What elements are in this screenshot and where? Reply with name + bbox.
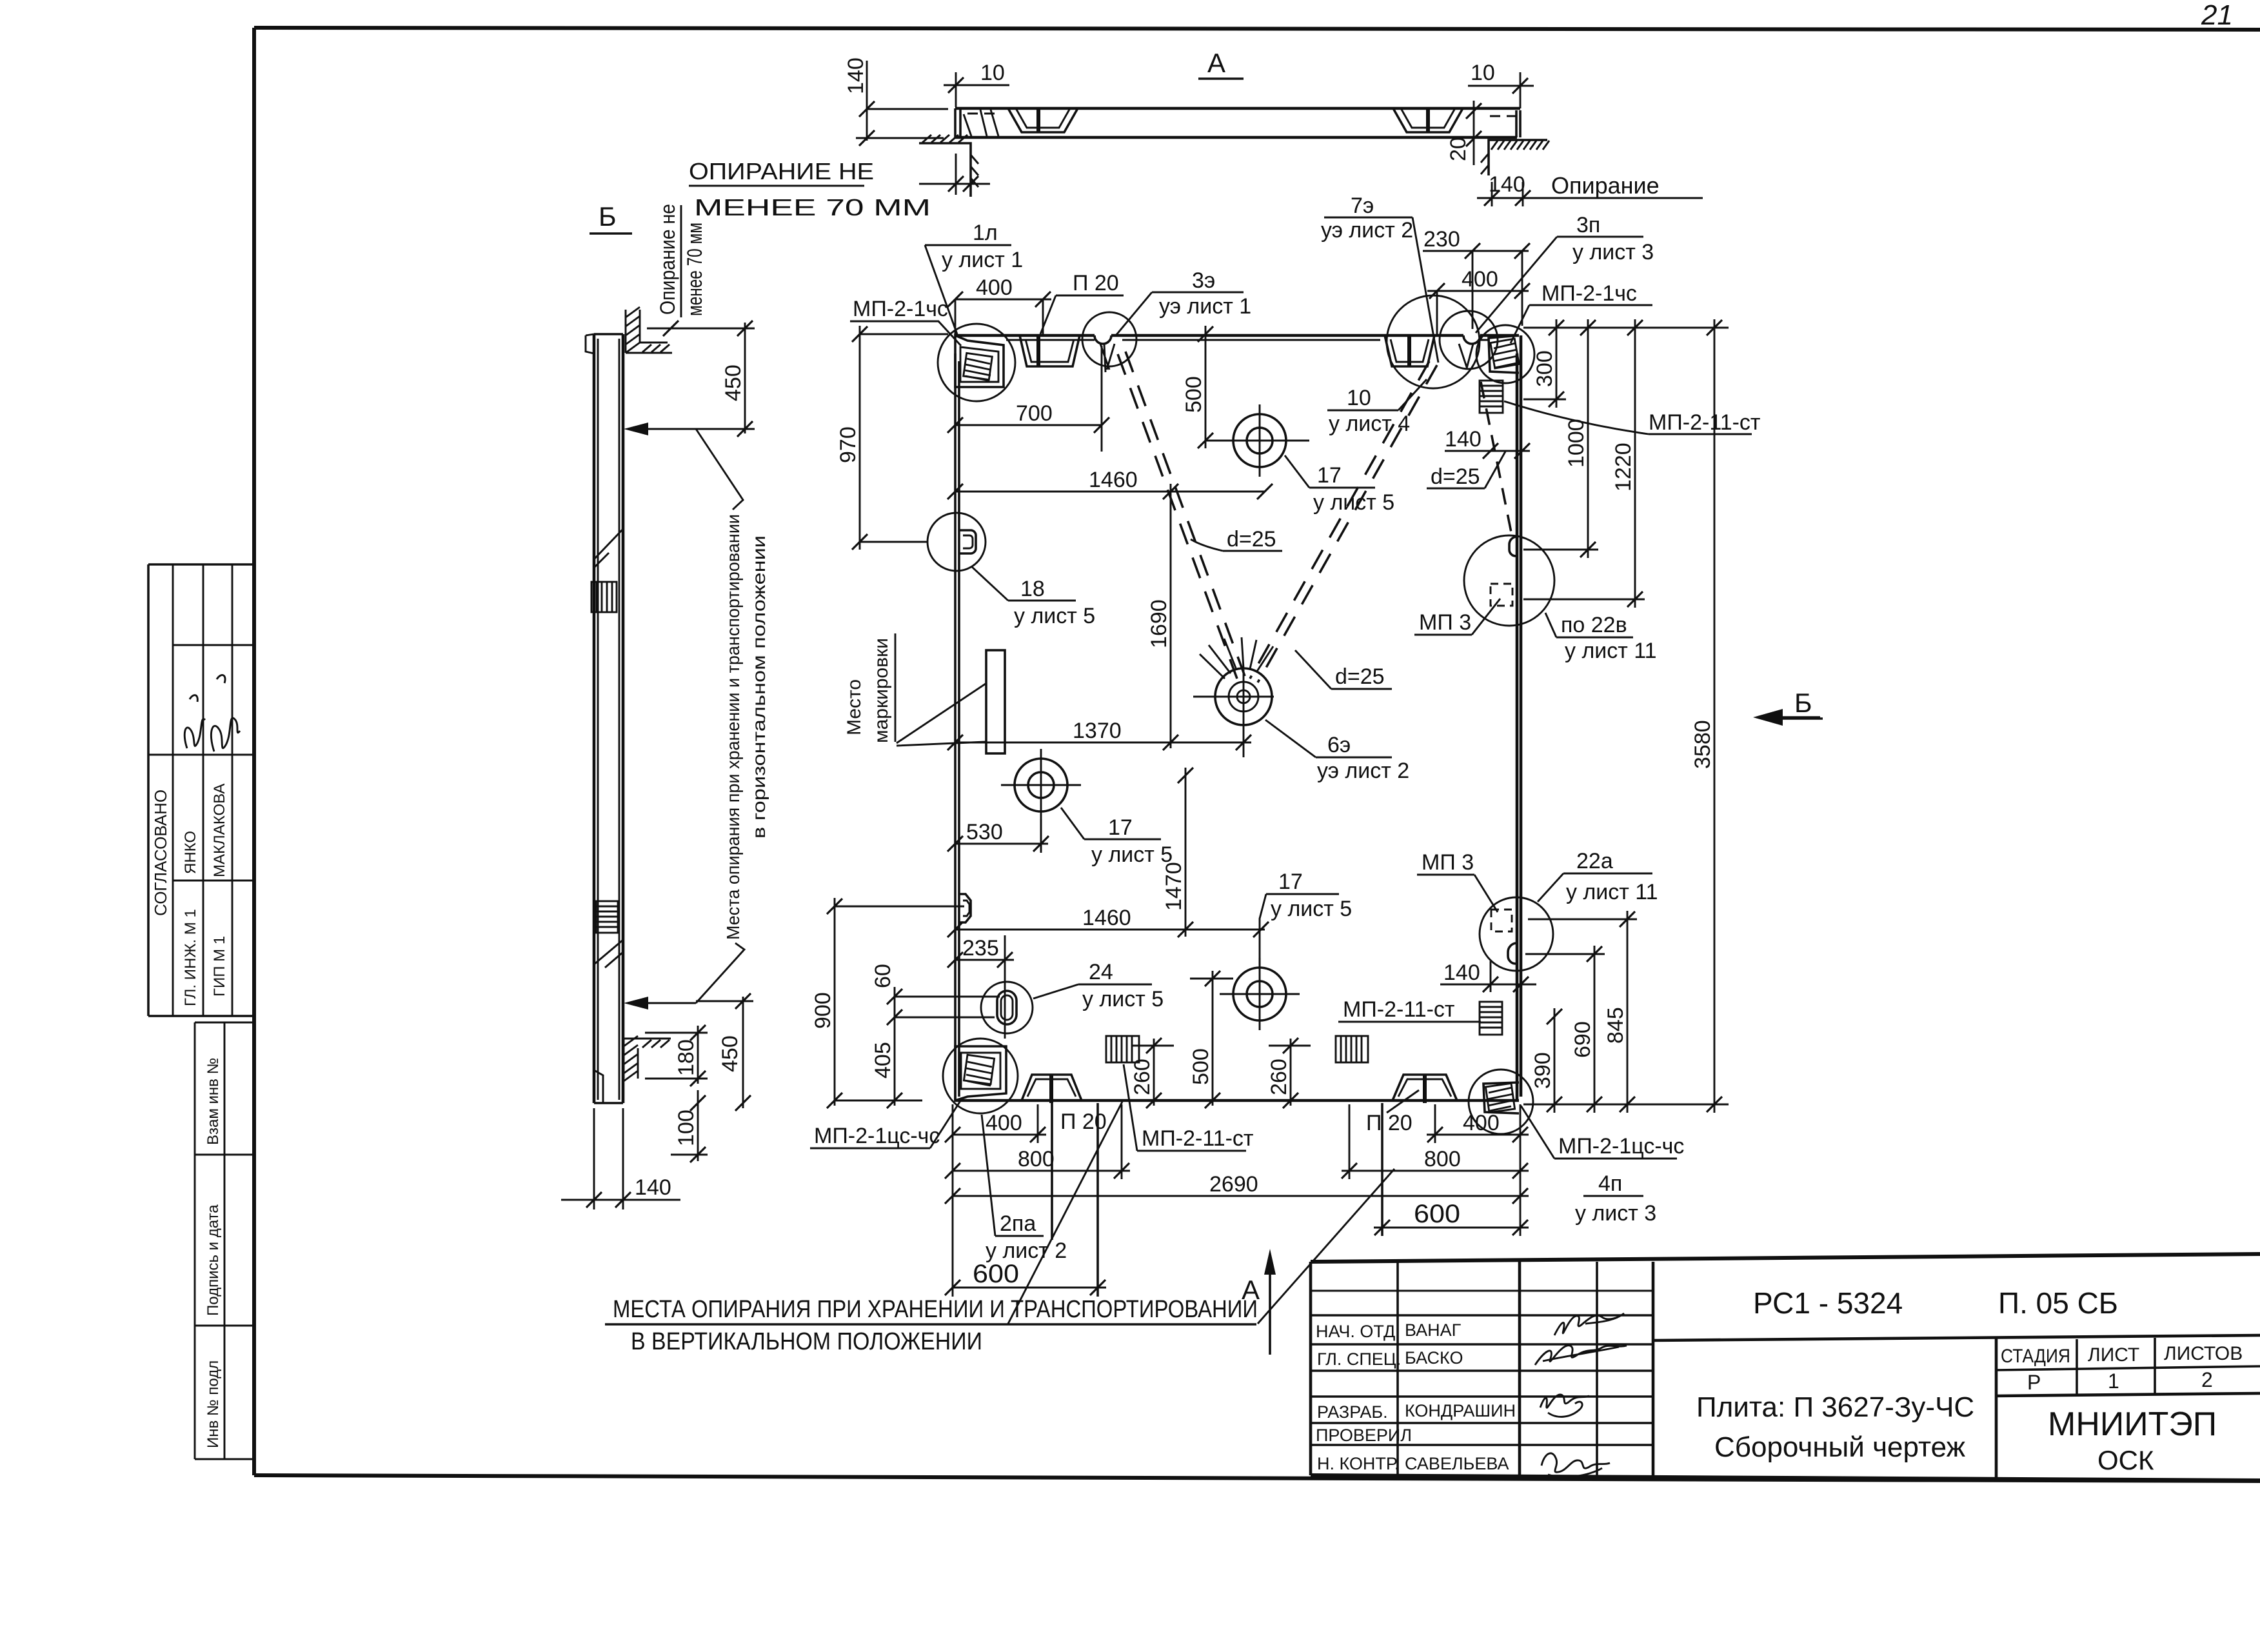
dim 300 right <box>1523 319 1566 408</box>
svg-text:530: 530 <box>966 820 1003 844</box>
dim 900 <box>811 898 964 1108</box>
svg-text:800: 800 <box>1018 1147 1055 1171</box>
dim 690 right <box>1525 946 1605 1113</box>
label 17 upper / у лист 5 <box>1285 455 1394 515</box>
plan left edge (double) <box>955 353 959 1100</box>
marking rectangle Место маркировки <box>986 650 1005 753</box>
comb МП-2-11-ст bottom-second <box>1336 1036 1368 1062</box>
dim 2690 bottom <box>945 1172 1529 1204</box>
dim 180 <box>645 1025 708 1086</box>
svg-text:140: 140 <box>635 1175 671 1200</box>
label 17 mid-left / у лист 5 <box>1061 808 1173 867</box>
leaders from Место маркировки to rect <box>897 684 986 746</box>
3п notch + detail circle <box>1440 311 1498 369</box>
stadия header bottom line <box>1996 1366 2260 1370</box>
svg-text:1л: 1л <box>973 221 998 245</box>
slab break marks upper <box>594 529 623 568</box>
svg-text:у лист 5: у лист 5 <box>1082 987 1164 1011</box>
label МП-2-11-ст mid-right <box>1338 997 1481 1022</box>
label 7э / уэ лист 2 <box>1321 194 1438 363</box>
svg-text:140: 140 <box>1489 172 1525 197</box>
svg-text:у лист 5: у лист 5 <box>1014 604 1095 628</box>
svg-text:САВЕЛЬЕВА: САВЕЛЬЕВА <box>1405 1454 1509 1473</box>
label МП-2-1цс-чс bottom-left <box>810 1098 962 1148</box>
svg-text:менее 70 мм: менее 70 мм <box>683 223 706 316</box>
dim 500 lower <box>1189 971 1233 1108</box>
plan top edge inner thin line <box>1006 339 1489 341</box>
svg-text:1220: 1220 <box>1611 443 1636 492</box>
svg-text:МП-2-11-ст: МП-2-11-ст <box>1343 997 1455 1022</box>
svg-text:140: 140 <box>844 57 868 94</box>
title block column lines (left part) <box>1398 1262 1653 1475</box>
svg-text:КОНДРАШИН: КОНДРАШИН <box>1405 1401 1516 1420</box>
bottom extension lines <box>953 1103 1520 1297</box>
dim 405 <box>871 1027 902 1108</box>
svg-text:7э: 7э <box>1351 194 1374 218</box>
dim 400 top-right <box>1427 267 1530 335</box>
title block row lines (left part) <box>1311 1291 1653 1445</box>
dim 1370 <box>947 719 1251 750</box>
Б section arrow right <box>1753 688 1823 726</box>
dim 450 bottom <box>696 993 753 1111</box>
svg-text:А: А <box>1207 48 1225 78</box>
svg-text:21: 21 <box>2201 0 2233 31</box>
dim 260 right <box>1267 1038 1311 1108</box>
svg-text:d=25: d=25 <box>1335 664 1385 689</box>
dim 230 top-right <box>1423 227 1530 329</box>
24 detail: oval hole <box>981 982 1033 1033</box>
svg-text:Опирание: Опирание <box>1551 172 1660 199</box>
signature ВАНАГ <box>1554 1313 1624 1335</box>
svg-text:400: 400 <box>1462 267 1498 292</box>
caption leader to П20 right <box>1258 1169 1394 1324</box>
3э notch + detail circle <box>1082 312 1136 372</box>
plan top edge <box>955 334 1519 337</box>
dim 20 right <box>1446 101 1482 165</box>
svg-text:Б: Б <box>1794 688 1812 718</box>
comb МП-2-11-ст top-right <box>1480 381 1503 413</box>
МП3 detail upper: circle + dashed square <box>1464 535 1554 626</box>
dim 1220 right <box>1523 319 1645 608</box>
dim 600 bottom-right (handwritten) <box>1374 1200 1529 1235</box>
П20 support top-right <box>1385 295 1480 388</box>
svg-text:ПРОВЕРИЛ: ПРОВЕРИЛ <box>1316 1426 1412 1445</box>
svg-text:РС1 - 5324: РС1 - 5324 <box>1753 1286 1903 1320</box>
title block text: names <box>1405 1320 1516 1473</box>
svg-text:690: 690 <box>1571 1021 1595 1058</box>
slab profile section A <box>955 108 1520 137</box>
svg-text:140: 140 <box>1443 960 1480 985</box>
caption МЕСТА ОПИРАНИЯ (handwritten) <box>605 1296 1258 1355</box>
dim 1690 <box>1147 484 1178 750</box>
П20 support bottom-right <box>1393 1075 1457 1103</box>
svg-text:230: 230 <box>1423 227 1460 252</box>
label П 20 top-left <box>1040 271 1124 334</box>
svg-text:ОСК: ОСК <box>2097 1445 2154 1475</box>
section label Б <box>590 201 632 234</box>
svg-text:у лист 11: у лист 11 <box>1565 639 1657 663</box>
caption leader top <box>696 429 743 510</box>
svg-text:390: 390 <box>1531 1052 1555 1089</box>
svg-text:П 20: П 20 <box>1073 271 1119 295</box>
dashed tie 7э to 6э <box>1250 361 1437 682</box>
22а detail: circle + dashed square + hook <box>1480 897 1553 971</box>
svg-text:в горизонтальном положении: в горизонтальном положении <box>749 535 769 839</box>
svg-text:ГЛ. СПЕЦ.: ГЛ. СПЕЦ. <box>1317 1349 1401 1369</box>
svg-text:МНИИТЭП: МНИИТЭП <box>2048 1406 2217 1443</box>
stadия column dividers <box>2077 1338 2155 1396</box>
label 2па / у лист 2 <box>982 1115 1067 1263</box>
stadия section left edge <box>1995 1338 1998 1477</box>
svg-text:450: 450 <box>718 1035 742 1072</box>
svg-text:у лист 1: у лист 1 <box>942 248 1023 272</box>
svg-text:уэ лист 2: уэ лист 2 <box>1317 759 1409 783</box>
label МП 3 upper <box>1414 599 1500 635</box>
dim 530 <box>947 819 1049 851</box>
svg-text:у лист 5: у лист 5 <box>1271 897 1352 921</box>
text Опирание не менее 70 мм (rotated) <box>656 204 706 317</box>
dim 400 top-left <box>947 275 1051 335</box>
svg-text:П 20: П 20 <box>1060 1110 1107 1134</box>
dim 1000 right <box>1523 319 1598 558</box>
dim 845 right <box>1528 911 1637 1113</box>
svg-text:140: 140 <box>1445 427 1482 452</box>
А section arrow bottom <box>1242 1249 1276 1355</box>
svg-text:у лист 3: у лист 3 <box>1572 240 1654 264</box>
svg-text:Взам инв №: Взам инв № <box>204 1058 222 1145</box>
dim 140 bottom of Б <box>561 1108 680 1209</box>
svg-text:1690: 1690 <box>1147 599 1171 648</box>
corner detail bottom-right <box>1469 1070 1533 1134</box>
svg-text:ЛИСТОВ: ЛИСТОВ <box>2164 1343 2243 1364</box>
svg-text:ВАНАГ: ВАНАГ <box>1405 1320 1462 1340</box>
signature БАСКО <box>1535 1346 1627 1365</box>
dim 140 top-right small <box>1445 427 1530 459</box>
leader П20 bottom-right support <box>1387 1090 1419 1113</box>
left support wall corner <box>919 135 978 197</box>
dashed tie 3э to 6э <box>1118 352 1245 679</box>
dim 3580 right <box>1523 319 1729 1113</box>
svg-text:Подпись и дата: Подпись и дата <box>204 1204 222 1316</box>
dim 140 right + Опирание <box>1477 172 1703 206</box>
svg-text:970: 970 <box>836 426 860 463</box>
dashed tie corner to МП3 <box>1481 382 1512 535</box>
sidebar box Инв № подл <box>195 1326 254 1459</box>
dim 800 bottom-left <box>945 1147 1130 1179</box>
dim 235 <box>947 935 1014 1039</box>
svg-text:МП-2-1чс: МП-2-1чс <box>853 297 948 321</box>
dim 140 bottom-right small <box>1440 960 1536 992</box>
dim 10 right <box>1468 61 1534 108</box>
6э anchor circle with fan hatch <box>1193 637 1274 757</box>
svg-text:235: 235 <box>962 936 999 960</box>
dim 1470 <box>1162 768 1193 937</box>
label 6э / уэ лист 2 <box>1265 720 1409 783</box>
label МП-2-1цс-чс bottom-right + 4п / у лист 3 <box>1521 1106 1684 1226</box>
svg-text:СТАДИЯ: СТАДИЯ <box>2001 1346 2070 1367</box>
sidebar box Подпись и дата <box>195 1155 254 1326</box>
svg-text:уэ лист 1: уэ лист 1 <box>1159 294 1251 319</box>
svg-text:500: 500 <box>1182 376 1206 413</box>
title block divider under PC1 row <box>1653 1335 2260 1340</box>
slab vertical section Б <box>586 334 623 1103</box>
plan right edge (double) <box>1517 335 1521 1100</box>
comb symbol on slab lower <box>596 901 618 933</box>
label 22а / у лист 11 <box>1538 849 1658 904</box>
svg-text:Р: Р <box>2027 1371 2041 1394</box>
svg-text:Место: Место <box>844 679 865 735</box>
label МП-2-1чс top-left <box>850 297 961 346</box>
text Опирание не менее 70 мм (handwritten) <box>689 158 931 221</box>
title block text: role labels <box>1316 1322 1412 1473</box>
svg-text:по 22в: по 22в <box>1561 613 1627 637</box>
page frame bottom border <box>254 1475 2260 1481</box>
svg-text:ЯНКО: ЯНКО <box>182 831 199 874</box>
label 10 / у лист 4 <box>1327 379 1427 436</box>
svg-text:1470: 1470 <box>1162 862 1186 911</box>
svg-text:Места опирания при хранении и: Места опирания при хранении и транспорти… <box>723 514 743 940</box>
sidebar signature 1 <box>184 695 205 748</box>
svg-text:300: 300 <box>1532 350 1557 387</box>
label МП-2-11-ст bottom <box>1124 1064 1254 1151</box>
label 3э / уэ лист 1 <box>1116 268 1251 335</box>
dim 500 upper <box>1182 326 1309 448</box>
signature САВЕЛЬЕВА <box>1541 1453 1610 1477</box>
svg-text:d=25: d=25 <box>1227 527 1276 552</box>
17 hole upper <box>1220 404 1300 477</box>
dim 1460 upper <box>947 468 1273 499</box>
svg-text:Опирание не: Опирание не <box>656 204 679 315</box>
svg-text:2690: 2690 <box>1209 1172 1258 1197</box>
svg-text:МЕСТА ОПИРАНИЯ ПРИ ХРАНЕНИИ: МЕСТА ОПИРАНИЯ ПРИ ХРАНЕНИИ И ТРАНСПОРТИ… <box>613 1296 1258 1323</box>
svg-text:уэ лист 2: уэ лист 2 <box>1321 218 1413 243</box>
dim 400 bottom-left <box>945 1111 1046 1142</box>
left edge C-notch <box>959 894 971 922</box>
svg-text:Б: Б <box>599 201 617 232</box>
label МП-2-11-ст top-right <box>1504 401 1761 435</box>
svg-text:17: 17 <box>1108 815 1133 840</box>
svg-text:845: 845 <box>1603 1007 1628 1044</box>
plan bottom edge <box>955 1099 1519 1102</box>
svg-text:МП-2-1цс-чс: МП-2-1цс-чс <box>814 1124 940 1148</box>
18 detail: edge notch + circle <box>927 513 986 571</box>
dim 450 top <box>647 321 755 437</box>
sidebar signature 2 <box>211 675 240 751</box>
svg-text:у лист 3: у лист 3 <box>1575 1201 1656 1226</box>
svg-text:СОГЛАСОВАНО: СОГЛАСОВАНО <box>151 790 170 916</box>
svg-text:ОПИРАНИЕ НЕ: ОПИРАНИЕ НЕ <box>689 158 874 184</box>
dim 400 bottom-right <box>1427 1111 1529 1142</box>
svg-text:МЕНЕЕ 70 ММ: МЕНЕЕ 70 ММ <box>694 194 931 221</box>
label 24 / у лист 5 <box>1033 960 1164 1011</box>
caption leader to П20 left <box>1008 1102 1122 1324</box>
label d=25 third <box>1427 452 1505 489</box>
svg-text:2: 2 <box>2201 1368 2213 1391</box>
svg-text:450: 450 <box>721 364 746 401</box>
corner detail top-left: hatched square <box>938 324 1015 401</box>
caption leader bottom <box>696 943 744 1003</box>
svg-text:10: 10 <box>1347 386 1371 410</box>
svg-text:МАКЛАКОВА: МАКЛАКОВА <box>211 784 228 877</box>
svg-text:3580: 3580 <box>1690 720 1715 769</box>
svg-text:10: 10 <box>1471 61 1495 85</box>
dim 60 <box>871 964 1000 1027</box>
dim 140 left (slab thickness) <box>844 57 948 146</box>
label по 22в / у лист 11 <box>1545 613 1657 663</box>
support arrow bottom <box>624 997 696 1010</box>
svg-text:800: 800 <box>1424 1147 1461 1171</box>
dim 700 <box>947 346 1109 452</box>
stadия value row bottom line <box>1996 1393 2260 1396</box>
stadия header texts <box>2001 1343 2243 1367</box>
svg-text:у лист 11: у лист 11 <box>1566 880 1658 904</box>
svg-text:6э: 6э <box>1327 733 1351 757</box>
svg-text:500: 500 <box>1189 1048 1213 1085</box>
dim 10 left <box>944 61 1009 107</box>
svg-text:405: 405 <box>871 1042 895 1079</box>
svg-text:1: 1 <box>2108 1369 2119 1393</box>
svg-text:d=25: d=25 <box>1431 464 1480 489</box>
comb МП-2-11-ст right-mid <box>1480 1002 1502 1035</box>
dim 260 left <box>1130 1038 1174 1108</box>
top wall bracket (hatched) <box>626 307 672 353</box>
svg-text:3э: 3э <box>1192 268 1215 293</box>
dim 1460 lower <box>947 906 1269 937</box>
dim 800 bottom-right <box>1342 1147 1529 1179</box>
svg-text:400: 400 <box>1463 1111 1500 1135</box>
label МП-2-1чс top-right <box>1511 281 1652 343</box>
corner detail bottom-left <box>943 1039 1018 1113</box>
17 hole mid-left <box>1001 749 1081 821</box>
svg-text:ГЛ. ИНЖ. М 1: ГЛ. ИНЖ. М 1 <box>182 909 199 1006</box>
svg-text:П 20: П 20 <box>1366 1111 1412 1135</box>
label d=25 first <box>1191 527 1282 552</box>
label 18 / у лист 5 <box>971 566 1095 628</box>
svg-text:у лист 2: у лист 2 <box>986 1239 1067 1263</box>
svg-text:180: 180 <box>674 1039 699 1076</box>
support arrow top <box>624 423 696 435</box>
svg-text:МП-2-1цс-чс: МП-2-1цс-чс <box>1558 1134 1684 1159</box>
comb МП-2-11-ст bottom-center <box>1106 1036 1139 1062</box>
svg-text:400: 400 <box>976 275 1013 300</box>
text Место маркировки (rotated) <box>844 633 895 743</box>
svg-text:МП-2-1чс: МП-2-1чс <box>1541 281 1637 306</box>
svg-text:4п: 4п <box>1598 1171 1622 1196</box>
signature КОНДРАШИН <box>1540 1395 1589 1417</box>
svg-text:100: 100 <box>674 1110 699 1146</box>
svg-text:МП 3: МП 3 <box>1422 850 1474 875</box>
rotated caption places of support (horizontal position) <box>723 514 769 940</box>
svg-text:Сборочный чертеж: Сборочный чертеж <box>1714 1431 1966 1463</box>
svg-text:600: 600 <box>1414 1200 1460 1228</box>
page frame top border <box>254 28 2260 30</box>
svg-text:у лист 5: у лист 5 <box>1313 490 1394 515</box>
svg-text:1370: 1370 <box>1073 719 1122 743</box>
dim 100 <box>671 1090 708 1162</box>
stadия values <box>2027 1368 2213 1394</box>
svg-text:17: 17 <box>1278 870 1303 894</box>
label МП 3 lower <box>1417 850 1498 912</box>
slab left end bevel and hidden lines <box>964 110 998 136</box>
svg-text:Н. КОНТР.: Н. КОНТР. <box>1317 1454 1399 1473</box>
section label А <box>1198 48 1244 79</box>
svg-text:у лист 5: у лист 5 <box>1091 842 1173 867</box>
svg-text:17: 17 <box>1317 463 1342 488</box>
svg-text:1460: 1460 <box>1082 906 1131 930</box>
slab break marks lower <box>594 940 623 968</box>
svg-text:18: 18 <box>1020 577 1045 601</box>
dim 390 right <box>1531 1008 1562 1113</box>
page frame left border <box>252 28 256 1475</box>
label 1л / у лист 1 <box>925 221 1023 334</box>
label d=25 second <box>1295 650 1392 689</box>
svg-text:2па: 2па <box>1000 1211 1036 1236</box>
svg-text:БАСКО: БАСКО <box>1405 1348 1463 1368</box>
svg-text:700: 700 <box>1016 401 1053 426</box>
label 17 lower-right / у лист 5 <box>1260 870 1352 966</box>
svg-text:маркировки: маркировки <box>871 638 892 743</box>
svg-text:3п: 3п <box>1576 213 1600 237</box>
svg-text:10: 10 <box>980 61 1005 85</box>
comb symbol on slab upper (МП-2-11-ст) <box>591 582 617 612</box>
svg-text:600: 600 <box>973 1260 1019 1288</box>
svg-text:ЛИСТ: ЛИСТ <box>2088 1344 2139 1366</box>
svg-text:МП-2-11-ст: МП-2-11-ст <box>1649 410 1761 435</box>
bottom wall bracket (hatched) <box>624 1036 671 1081</box>
svg-text:МП-2-11-ст: МП-2-11-ст <box>1142 1126 1254 1151</box>
17 hole lower-right <box>1220 958 1300 1030</box>
П20 support top-left <box>1020 334 1080 366</box>
slab channel void 2 <box>1393 108 1463 132</box>
title block outer box <box>1311 1254 2260 1480</box>
svg-text:В ВЕРТИКАЛЬНОМ ПОЛОЖЕНИИ: В ВЕРТИКАЛЬНОМ ПОЛОЖЕНИИ <box>631 1328 982 1355</box>
support depth 70 marks left <box>919 154 990 195</box>
svg-text:ГИП М 1: ГИП М 1 <box>211 936 228 997</box>
svg-text:1000: 1000 <box>1564 419 1589 468</box>
svg-text:60: 60 <box>871 964 895 988</box>
corner detail top-right: hatched square + circle <box>1476 325 1534 383</box>
svg-text:1460: 1460 <box>1089 468 1138 492</box>
svg-text:МП 3: МП 3 <box>1419 610 1471 635</box>
svg-text:у лист 4: у лист 4 <box>1329 412 1410 436</box>
dim 970 <box>836 326 948 550</box>
svg-text:20: 20 <box>1446 137 1471 161</box>
svg-text:22а: 22а <box>1576 849 1613 873</box>
svg-text:260: 260 <box>1130 1059 1155 1095</box>
dim 600 bottom-left (handwritten) <box>945 1260 1106 1295</box>
svg-text:НАЧ. ОТД.: НАЧ. ОТД. <box>1316 1322 1400 1341</box>
П20 support bottom-left <box>1022 1075 1082 1240</box>
sidebar table СОГЛАСОВАНО box <box>148 564 254 1016</box>
svg-text:260: 260 <box>1267 1059 1291 1095</box>
slab channel void 1 <box>1008 108 1078 132</box>
label 3п / у лист 3 <box>1476 213 1654 333</box>
svg-text:900: 900 <box>811 992 835 1029</box>
sidebar box Взам инв № <box>195 1022 254 1155</box>
svg-text:Инв № подл: Инв № подл <box>204 1360 222 1448</box>
svg-text:П. 05 СБ: П. 05 СБ <box>1998 1286 2118 1320</box>
right support wall corner <box>1481 140 1549 175</box>
slab right end hidden line <box>1490 115 1517 117</box>
svg-text:РАЗРАБ.: РАЗРАБ. <box>1317 1402 1388 1422</box>
svg-text:400: 400 <box>986 1111 1022 1135</box>
svg-text:24: 24 <box>1089 960 1113 984</box>
svg-text:Плита: П 3627-Зу-ЧС: Плита: П 3627-Зу-ЧС <box>1696 1391 1974 1423</box>
